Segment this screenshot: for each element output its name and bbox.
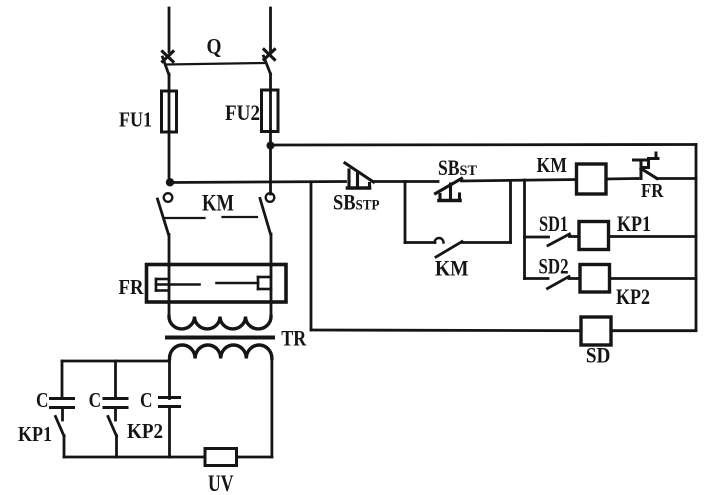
svg-text:Q: Q (207, 34, 222, 59)
svg-text:SD1: SD1 (539, 211, 568, 236)
wire FR to transformer left (168, 302, 171, 317)
switch SD2 (548, 277, 570, 289)
relay coil SD (581, 317, 611, 345)
wire SD branch vertical (523, 180, 526, 279)
relay coil KP2 (580, 265, 610, 293)
svg-text:KP2: KP2 (127, 419, 163, 443)
contactor coil KM (577, 164, 607, 194)
switch SD1 (548, 234, 570, 246)
capacitor C3 (160, 398, 180, 407)
disconnect switch Q pole 1 (163, 52, 174, 76)
svg-text:STP: STP (356, 198, 380, 214)
node at FU1 output (166, 178, 174, 186)
wire control rail (169, 182, 346, 183)
undervoltage coil UV (205, 449, 237, 466)
wire top control line (271, 143, 697, 146)
wire latch branch left (404, 182, 407, 243)
wire through FR box right (270, 265, 273, 303)
wire L2 top (269, 8, 272, 51)
capacitor C2 (104, 399, 127, 408)
wire SD1 branch (525, 236, 549, 239)
svg-text:C: C (89, 388, 102, 412)
svg-text:KP1: KP1 (18, 422, 52, 446)
disconnect switch Q pole 2 (264, 50, 275, 75)
contactor KM main contact 2 (260, 193, 274, 266)
wire rail SBstp to SBst (374, 180, 439, 183)
wire secondary right down (270, 359, 273, 458)
svg-text:ST: ST (460, 163, 478, 179)
wire SD to right rail (611, 329, 696, 332)
wire bottom return line (311, 329, 581, 333)
linkage bar of Q (166, 63, 264, 65)
wire latch branch right (462, 241, 511, 244)
fuse FU1 (162, 91, 177, 132)
wire FR to transformer right (270, 302, 273, 317)
wire rail SBst to KM coil (462, 180, 577, 182)
wire secondary left down (168, 359, 171, 399)
svg-text:SB: SB (438, 155, 460, 180)
wire through FR box left (168, 265, 171, 303)
contactor KM main contact 1 (158, 193, 173, 266)
svg-text:FU1: FU1 (119, 107, 152, 131)
fuse FU2 (262, 90, 279, 132)
wire cap branch 2 top (114, 361, 117, 399)
transformer TR core (167, 336, 273, 340)
transformer TR secondary winding (170, 345, 272, 359)
wire FU1 to node (168, 131, 171, 183)
wire bottom cap rail (64, 456, 205, 459)
capacitor C1 (51, 399, 74, 408)
svg-text:C: C (36, 388, 49, 412)
wire SD2 branch (525, 277, 549, 280)
linkage of KM contacts (166, 217, 258, 218)
thermal relay FR box (147, 265, 287, 303)
svg-text:KM: KM (537, 153, 568, 177)
switch KP1 (56, 408, 65, 458)
wire into FU2 (269, 74, 272, 91)
svg-text:KM: KM (202, 191, 234, 216)
start pushbutton SBst (436, 179, 462, 201)
FR heater element right (217, 277, 272, 289)
auxiliary contact KM (435, 238, 463, 257)
svg-text:UV: UV (208, 471, 234, 495)
wire left return vertical (310, 182, 313, 330)
wire into FU1 (168, 74, 171, 92)
svg-text:FU2: FU2 (225, 100, 260, 125)
FR heater element left (156, 279, 200, 291)
svg-text:SD2: SD2 (539, 253, 569, 278)
wire KP2 to right rail (610, 277, 697, 280)
svg-text:KM: KM (435, 255, 469, 280)
svg-text:TR: TR (281, 326, 307, 351)
svg-text:KP1: KP1 (617, 211, 651, 236)
wire UV to right (237, 456, 272, 459)
switch KP2 (108, 408, 117, 458)
node at FU2 output (267, 142, 275, 150)
svg-text:FR: FR (119, 275, 144, 299)
relay coil KP1 (579, 222, 609, 250)
wire right vertical rail (695, 145, 698, 331)
wire FR contact to right rail (657, 177, 696, 180)
wire L1 top (168, 8, 171, 52)
wire KP1 to right rail (609, 235, 697, 238)
wire cap branch 3 down (168, 407, 171, 458)
svg-text:FR: FR (641, 180, 664, 202)
stop pushbutton SBstp (345, 163, 374, 188)
svg-text:KP2: KP2 (616, 284, 650, 309)
svg-text:C: C (140, 388, 153, 412)
wire KM coil to FR contact (606, 177, 638, 180)
transformer TR primary winding (169, 317, 271, 329)
svg-text:SD: SD (586, 343, 611, 368)
thermal contact FR (634, 153, 659, 179)
wire FU2 to node (269, 130, 272, 194)
wire cap branch 1 top (61, 361, 64, 399)
svg-text:SB: SB (333, 190, 356, 215)
wire capacitor top rail (62, 360, 170, 363)
